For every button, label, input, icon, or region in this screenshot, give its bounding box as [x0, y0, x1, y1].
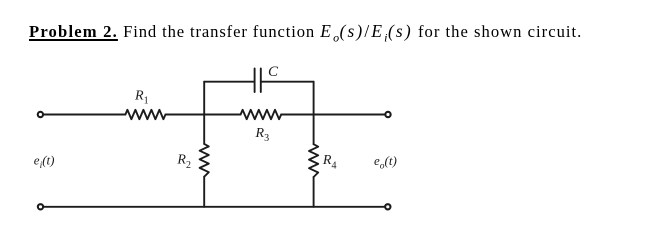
svg-text:ei(t): ei(t) — [34, 152, 55, 171]
wire: R1 to node A — [166, 114, 205, 116]
wire: node A to R3 — [204, 114, 240, 116]
label e_i(t) — [34, 152, 55, 171]
output terminal top (open circle) — [385, 112, 390, 117]
node A: junction of R1, R2, R3, C branch — [203, 114, 205, 116]
wire: node B to output terminal — [314, 114, 385, 116]
resistor R2 — [200, 144, 209, 177]
input terminal top (open circle) — [38, 112, 43, 117]
label R4 — [322, 153, 337, 171]
resistor R4 — [309, 144, 318, 177]
wire: bottom rail, R4 to output terminal — [314, 206, 385, 208]
capacitor C (plates) — [255, 69, 261, 93]
svg-text:R4: R4 — [322, 153, 337, 171]
svg-text:R3: R3 — [255, 126, 270, 144]
title: problem statement — [29, 21, 582, 42]
svg-text:C: C — [268, 64, 279, 80]
label R1 — [134, 88, 149, 106]
wire: capacitor branch top-left horizontal — [204, 81, 254, 83]
label R2 — [176, 153, 191, 171]
label e_o(t) — [374, 153, 397, 172]
wire: R3 to node B — [281, 114, 313, 116]
resistor R3 — [241, 110, 282, 119]
label C — [268, 64, 279, 80]
svg-text:R1: R1 — [134, 88, 149, 106]
resistor R1 — [125, 110, 165, 119]
wire: bottom rail, input terminal to R2 — [44, 206, 204, 208]
wire: node B down to R4 — [313, 115, 315, 145]
wire: capacitor branch right vertical (down to node B) — [313, 82, 315, 115]
node B: junction of R3, R4, C branch, output — [313, 114, 315, 116]
svg-text:R2: R2 — [176, 153, 191, 171]
wire: bottom rail, R2 to R4 — [204, 206, 313, 208]
svg-text:eo(t): eo(t) — [374, 153, 397, 172]
label R3 — [255, 126, 270, 144]
input terminal bottom (open circle) — [38, 204, 43, 209]
output terminal bottom (open circle) — [385, 204, 390, 209]
wire: R4 to bottom rail — [313, 177, 315, 207]
wire: R2 to bottom rail — [203, 177, 205, 207]
wire: node A down to R2 — [203, 115, 205, 144]
wire: capacitor branch top-right horizontal — [262, 81, 314, 83]
wire: capacitor branch left vertical (node A up) — [203, 82, 205, 115]
wire: input terminal to R1 — [44, 114, 126, 116]
